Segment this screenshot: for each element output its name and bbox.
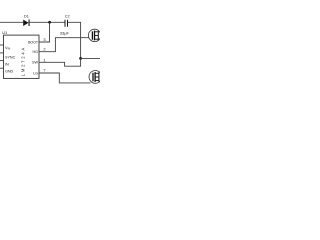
svg-text:IN: IN [5,63,9,67]
svg-text:3: 3 [43,37,46,42]
transistor Q2 [89,71,102,84]
wire HG pin to Q1 gate [39,38,89,52]
svg-text:LM2724A: LM2724A [21,48,26,77]
transistor Q1 [88,29,100,41]
wire top rail left [0,21,23,23]
svg-text:U1: U1 [2,30,7,35]
diode D1 [23,20,29,27]
node SW junction dot [79,57,82,60]
svg-text:GND: GND [5,70,14,74]
svg-text:1: 1 [43,57,46,62]
svg-text:SYNC: SYNC [5,55,16,59]
node BOOT junction dot [48,21,51,24]
pin SD stub [0,60,4,62]
op IC U1 box [4,35,40,78]
svg-text:D1: D1 [24,14,29,18]
svg-text:BOOT: BOOT [28,41,39,45]
capacitor C2 [65,20,68,27]
wire LG pin to Q2 gate [39,73,91,83]
wire SW pin to SW node [39,58,81,66]
wire BOOT pin to rail [39,22,50,42]
svg-text:2: 2 [43,47,46,52]
svg-text:33µF: 33µF [60,30,70,35]
svg-text:7: 7 [43,68,46,73]
svg-text:LG: LG [33,71,38,75]
wire rail diode to C2 [30,21,65,23]
svg-text:HG: HG [32,50,38,54]
svg-text:SW: SW [32,61,38,65]
pin SYNC stub [0,52,4,54]
pin GND stub [0,67,4,69]
svg-text:VIN: VIN [5,45,10,51]
wire C2 to corner [68,22,81,58]
pin VIN stub [0,44,4,46]
svg-text:C2: C2 [65,14,70,18]
wire SW node to right edge [81,57,100,59]
